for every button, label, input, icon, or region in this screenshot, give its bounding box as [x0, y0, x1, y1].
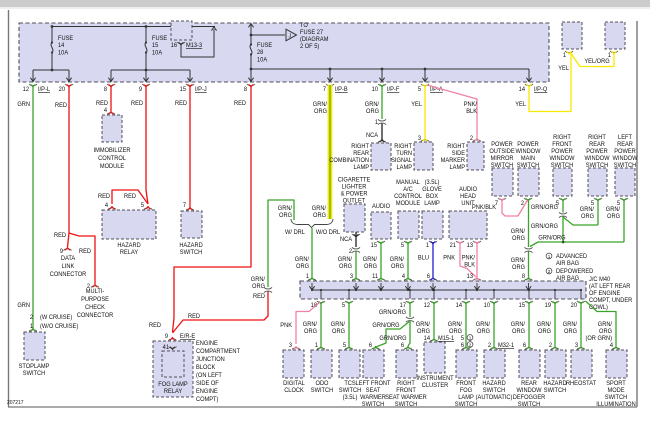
svg-text:MAIN: MAIN — [521, 156, 535, 162]
fog pin 9 — [165, 334, 169, 340]
label YEL pin14 — [515, 102, 526, 108]
left front seat warmer pin 6 — [369, 343, 373, 349]
label YEL/ORG — [584, 59, 610, 65]
digital clock — [283, 350, 304, 378]
to fuse 27 note — [300, 23, 328, 50]
svg-text:ORG: ORG — [339, 264, 352, 270]
svg-text:2 OF 5): 2 OF 5) — [300, 44, 319, 50]
fuse 14 — [51, 26, 53, 70]
rheostat pin bump — [577, 347, 585, 350]
left front seat warmer switch — [363, 350, 384, 378]
svg-text:2: 2 — [349, 249, 352, 255]
bus internal drop pin 10 — [493, 290, 495, 299]
svg-text:10: 10 — [372, 87, 379, 93]
right turn signal lamp bump — [421, 139, 429, 142]
svg-text:GRN/: GRN/ — [476, 322, 491, 328]
wire GRN/ORG bus pin20 to rheostat — [580, 303, 582, 347]
svg-text:RELAY: RELAY — [120, 250, 138, 256]
svg-text:FUSE: FUSE — [257, 43, 272, 49]
connector M13-3 — [171, 21, 192, 40]
label NCA — [366, 133, 378, 139]
legend depowered air bag — [556, 269, 593, 282]
svg-text:GRN/: GRN/ — [363, 257, 378, 263]
bus bottom bump pin 20 — [577, 301, 585, 304]
svg-text:RIGHT: RIGHT — [553, 135, 571, 141]
bus bottom bump pin 17 — [406, 301, 414, 304]
digital clock pin bump — [292, 347, 300, 350]
right front power window switch — [553, 168, 572, 196]
label RED at bend — [149, 323, 161, 329]
label RED branch 2 — [79, 249, 91, 255]
sheet right border — [636, 21, 638, 407]
fuse box exit lower pin 8 — [247, 84, 255, 87]
bus bottom bump pin 19 — [551, 301, 559, 304]
right rear combination lamp — [371, 143, 391, 170]
svg-text:GRN/: GRN/ — [448, 322, 463, 328]
odo switch pin bump — [317, 347, 325, 350]
hazard relay pin 4 — [105, 203, 109, 209]
bus internal drop pin 5 — [348, 290, 350, 299]
svg-text:OF ENGINE: OF ENGINE — [589, 291, 620, 297]
wire PNK/BLK mirror to main switch — [502, 200, 528, 217]
junction fuse 28 bottom — [250, 68, 253, 71]
number pin 8 — [104, 87, 108, 93]
svg-text:SWITCH: SWITCH — [395, 402, 417, 408]
svg-text:WARMER: WARMER — [360, 395, 386, 401]
sheet number 207217 — [7, 400, 24, 406]
svg-text:14: 14 — [519, 87, 526, 93]
svg-text:FRONT: FRONT — [552, 142, 572, 148]
fuse28 drop to pin 8 — [250, 69, 252, 81]
svg-text:FOG LAMP: FOG LAMP — [158, 382, 187, 388]
wire GRN/ORG bus pin20 to sport mode switch — [586, 301, 617, 346]
note (W/O CRUISE) — [40, 324, 78, 330]
sport mode pin 4 — [610, 343, 614, 349]
svg-text:GRN/ORG: GRN/ORG — [538, 235, 566, 241]
bus internal drop pin 17 — [409, 290, 411, 299]
label RED below color change — [253, 294, 265, 300]
connector name E/R-E — [180, 334, 195, 340]
bus junction pin 18 — [320, 289, 322, 291]
svg-text:FUSE: FUSE — [152, 36, 167, 42]
svg-text:E/R-E: E/R-E — [180, 334, 195, 340]
wire PNK bus pin18 to digital clock — [296, 302, 320, 344]
label GRN/ORG w-drl — [278, 206, 293, 219]
connector name M15-1 — [438, 336, 455, 342]
svg-text:GRN/: GRN/ — [313, 102, 328, 108]
bus junction pin 12 — [433, 289, 435, 291]
svg-text:MODULE: MODULE — [100, 164, 124, 170]
tcs switch — [339, 350, 360, 378]
bus internal drop pin 14 — [465, 290, 467, 299]
right rear power window switch — [588, 168, 607, 196]
svg-text:LAMP: LAMP — [354, 165, 370, 171]
svg-text:J/C M40: J/C M40 — [589, 277, 611, 283]
audio head unit pin 13 bump — [473, 241, 481, 244]
bus internal arrow pin 1 — [309, 286, 314, 290]
svg-text:SWITCH: SWITCH — [518, 402, 540, 408]
right turn signal lamp — [414, 142, 433, 170]
svg-text:INSTRUMENT: INSTRUMENT — [416, 376, 454, 382]
wire GRN/ORG rf window upper — [562, 200, 564, 213]
front fog circled 1 — [467, 335, 473, 341]
right turn lamp pin 3 — [418, 136, 422, 142]
svg-text:RIGHT: RIGHT — [447, 144, 465, 150]
multi-purpose check connector name — [77, 289, 114, 319]
svg-text:COWL): COWL) — [589, 305, 608, 311]
svg-text:RED: RED — [234, 101, 246, 107]
svg-text:LINK: LINK — [62, 264, 75, 270]
hazard switch automatic name — [476, 381, 513, 401]
svg-text:GRN/: GRN/ — [338, 257, 353, 263]
wire GRN/ORG bus pin10 to hazard switch automatic — [493, 303, 495, 347]
svg-text:SWITCH: SWITCH — [483, 388, 505, 394]
label PNK/BLK — [464, 102, 478, 115]
in-line connector pin 1 — [375, 120, 379, 126]
bracket drop to pin 12 — [32, 70, 34, 81]
immobilizer pin 4 — [104, 108, 108, 114]
pin 16 label — [171, 43, 178, 49]
bus internal stem pin 11 — [380, 283, 382, 289]
bus internal stem pin 1 — [311, 283, 313, 289]
fuse box exit pin 20 — [65, 84, 73, 87]
svg-text:2: 2 — [469, 342, 472, 347]
wire GRN/ORG cigarette to bus pin 3 — [355, 252, 357, 278]
svg-text:SWITCH: SWITCH — [544, 388, 566, 394]
label PNK — [443, 255, 455, 261]
fuse box exit pin 12 I/P-L — [29, 84, 37, 87]
wire GRN/ORG manual a/c to bus pin 4 — [407, 242, 409, 277]
bus junction pin 5 — [348, 289, 350, 291]
right rear window pin 5 — [591, 201, 595, 207]
svg-text:13: 13 — [467, 274, 474, 280]
bus bottom bump pin 15 — [525, 301, 533, 304]
label GRN/ORG sport — [585, 322, 612, 342]
number pin 7 I/P-B — [323, 87, 326, 93]
bus pin 8 bump — [525, 278, 533, 281]
svg-text:GRN/: GRN/ — [251, 277, 266, 283]
manual a/c pin 5 — [401, 243, 405, 249]
mirror switch pin 7 bump — [498, 198, 506, 201]
glove box pin 1 — [426, 243, 430, 249]
svg-text:12: 12 — [424, 303, 430, 309]
hazard auto pin bump — [490, 347, 498, 350]
wire from M13-3 to rail — [181, 29, 214, 57]
instrument cluster pin bump — [430, 339, 438, 342]
drop to pin 5 — [424, 69, 426, 81]
fog lamp relay name — [158, 382, 187, 395]
engine compartment junction block note — [196, 341, 240, 403]
bus bottom bump pin 12 — [430, 301, 438, 304]
drop to pin 7 — [329, 69, 331, 81]
in-line connector cigarette — [352, 247, 360, 252]
svg-text:GRN/: GRN/ — [365, 102, 380, 108]
label GRN/ORG above color change — [251, 277, 266, 290]
arrow into lower pin 8 — [248, 78, 253, 82]
svg-text:15: 15 — [180, 87, 187, 93]
svg-text:SWITCH: SWITCH — [180, 250, 202, 256]
svg-text:LAMP: LAMP — [458, 395, 474, 401]
wire PNK audio head pin 21 to bus — [460, 242, 476, 277]
svg-text:SWITCH: SWITCH — [23, 371, 45, 377]
front fog lamp switch name — [455, 381, 477, 408]
fuse box exit pin 14 I/P-Q — [525, 84, 533, 87]
mirror switch pin 7 — [495, 201, 498, 207]
arrow into pin 9 — [143, 78, 148, 82]
hazard relay pin 5 bump — [144, 207, 152, 210]
svg-text:RED: RED — [55, 103, 67, 109]
rear window defogger name — [513, 381, 546, 408]
svg-text:CONTROL: CONTROL — [98, 156, 126, 162]
wire RED from pin 9 to hazard relay pin 5 — [146, 86, 148, 205]
svg-text:W/O DRL: W/O DRL — [316, 230, 341, 236]
sheet left border — [8, 10, 10, 407]
glove box lamp bottom bump — [429, 241, 437, 244]
front fog pin 6 — [461, 343, 465, 349]
svg-text:GRN/: GRN/ — [537, 322, 552, 328]
number pin 5 I/P-A — [418, 87, 422, 93]
audio head unit name — [459, 187, 477, 207]
odo switch name — [311, 381, 333, 394]
svg-text:W/ DRL: W/ DRL — [285, 230, 306, 236]
svg-text:POWER: POWER — [491, 142, 513, 148]
svg-text:15: 15 — [152, 43, 159, 49]
takeoff line to fuse 27 — [251, 34, 285, 36]
svg-text:2: 2 — [30, 315, 33, 321]
manual a/c bottom bump — [404, 241, 412, 244]
bus bottom bump pin 18 — [317, 301, 325, 304]
fuse box top rail — [52, 26, 215, 28]
fuse 15 — [145, 26, 147, 70]
svg-text:& POWER: & POWER — [341, 191, 369, 197]
bus internal stem pin 13 — [476, 283, 478, 289]
right front seat warmer switch — [396, 350, 417, 378]
bracket drop to pin 15 — [189, 70, 191, 81]
stoplamp pin 1 wo cruise — [30, 324, 34, 330]
left rear window switch pin bump — [620, 198, 628, 201]
label GRN/ORG pin10 — [365, 102, 380, 115]
connector name I/P-J — [195, 87, 207, 93]
label RED pin9 — [131, 101, 143, 107]
option brace for DRL split — [291, 219, 333, 228]
wire GRN/ORG bus pin12 to instrument cluster — [433, 303, 435, 339]
bus junction pin 14 — [465, 289, 467, 291]
label RED at hazard relay pin 4 — [98, 194, 110, 200]
pin 16 bump of M13-3 — [177, 42, 185, 45]
drop to pin 10 — [381, 69, 383, 81]
svg-text:OUTSIDE: OUTSIDE — [489, 149, 514, 155]
bus junction pin 3 — [355, 289, 357, 291]
stoplamp switch name — [19, 364, 50, 377]
fog lamp relay pin 41 bump — [169, 347, 177, 350]
svg-text:ORG: ORG — [304, 329, 317, 335]
junction to fuse 27 takeoff — [250, 34, 253, 37]
svg-text:GRN/ORG: GRN/ORG — [531, 224, 559, 230]
cigarette connector pin 2 — [349, 249, 352, 255]
wire BLU glove box to bus pin 6 — [432, 242, 434, 277]
svg-text:ORG: ORG — [417, 329, 430, 335]
svg-text:I/P-B: I/P-B — [335, 87, 348, 93]
svg-text:RIGHT: RIGHT — [351, 144, 369, 150]
in-line connector rf window — [559, 212, 567, 217]
svg-text:NCA: NCA — [366, 133, 378, 139]
svg-text:(3.5L): (3.5L) — [425, 180, 440, 186]
svg-text:HAZARD: HAZARD — [543, 381, 566, 387]
rear window defogger switch — [519, 350, 540, 378]
svg-text:1: 1 — [548, 254, 551, 259]
right side marker lamp bump — [473, 139, 481, 142]
drop to pin 14 — [528, 69, 530, 81]
connector name I/P-F — [387, 87, 400, 93]
svg-text:2: 2 — [548, 269, 551, 274]
tcs switch pin bump — [345, 347, 353, 350]
svg-text:17: 17 — [400, 303, 406, 309]
fuse box exit pin 7 I/P-B — [326, 84, 334, 87]
bus pin 3 bump — [352, 278, 360, 281]
svg-text:21: 21 — [450, 243, 457, 249]
audio head unit — [449, 211, 487, 239]
bus bottom bump pin 5 — [345, 301, 353, 304]
wire RED from pin 15 to hazard switch — [189, 86, 191, 209]
top right box2 pin 1 — [608, 53, 612, 59]
svg-text:PNK: PNK — [280, 323, 292, 329]
svg-text:DEFOGGER: DEFOGGER — [513, 395, 546, 401]
svg-text:ORG: ORG — [332, 329, 345, 335]
svg-text:28: 28 — [257, 50, 264, 56]
svg-text:TCS: TCS — [344, 381, 355, 387]
svg-text:CLOCK: CLOCK — [284, 388, 304, 394]
svg-text:REAR: REAR — [521, 381, 537, 387]
cigarette lighter bottom bump — [352, 234, 360, 237]
label PNK/BLK mirror — [472, 205, 496, 211]
bus top pin 13 — [467, 274, 474, 280]
svg-text:DATA: DATA — [61, 256, 75, 262]
note (W CRUISE) — [40, 315, 72, 321]
label RED lower pin8 — [234, 101, 246, 107]
audio pin 15 — [371, 243, 378, 249]
svg-text:FRONT: FRONT — [396, 388, 416, 394]
fuse 28 label — [257, 43, 272, 64]
svg-text:COMPARTMENT: COMPARTMENT — [196, 349, 240, 355]
rheostat — [571, 350, 592, 378]
svg-text:GRN/ORG: GRN/ORG — [379, 336, 407, 342]
svg-text:HAZARD: HAZARD — [482, 381, 505, 387]
bus junction pin 1 — [311, 289, 313, 291]
svg-text:LEFT FRONT: LEFT FRONT — [356, 381, 391, 387]
svg-text:SEAT: SEAT — [366, 388, 381, 394]
svg-text:SWITCH: SWITCH — [311, 388, 333, 394]
hazard auto pin 2 — [488, 343, 491, 349]
hazard relay pin 5 — [141, 203, 145, 209]
label YEL pin5 — [411, 102, 422, 108]
svg-text:IMMOBILIZER: IMMOBILIZER — [94, 148, 132, 154]
wire PNK/BLK audio head pin 13 to bus — [476, 242, 478, 277]
svg-text:ORG: ORG — [477, 329, 490, 335]
top right connector box 2 — [605, 22, 625, 49]
right rear power window switch name — [585, 135, 610, 169]
svg-text:20: 20 — [59, 87, 66, 93]
hazard switch lower — [545, 350, 566, 378]
bus internal arrow pin 8 — [526, 286, 531, 290]
main switch pin 2 bump — [524, 198, 532, 201]
audio name — [372, 204, 390, 210]
svg-text:CLUSTER: CLUSTER — [422, 383, 449, 389]
bus bottom number pin 15 — [519, 303, 526, 309]
right front seat warmer name — [385, 381, 427, 408]
bus bottom bump pin 10 — [490, 301, 498, 304]
svg-text:GRN/: GRN/ — [278, 206, 293, 212]
audio head pin 13 — [467, 243, 474, 249]
bus bottom number pin 10 — [484, 303, 491, 309]
svg-text:ORG: ORG — [512, 265, 525, 271]
svg-text:LAMP: LAMP — [424, 201, 440, 207]
svg-text:ORG: ORG — [391, 264, 404, 270]
instrument cluster — [424, 342, 445, 373]
data link pin 9 — [60, 249, 64, 255]
power outside mirror switch — [492, 168, 513, 196]
audio head unit pin 21 bump — [456, 241, 464, 244]
svg-text:GRN/: GRN/ — [511, 322, 526, 328]
wire YEL from pin 5 — [424, 86, 426, 140]
svg-text:POWER: POWER — [517, 142, 539, 148]
odo switch — [311, 350, 332, 378]
fog lamp relay pin bump — [169, 338, 177, 341]
number pin 14 I/P-Q — [519, 87, 526, 93]
hazard switch pin 7 — [183, 203, 186, 209]
svg-text:HAZARD: HAZARD — [179, 243, 202, 249]
svg-text:SIDE: SIDE — [452, 151, 465, 157]
bus top pin 11 — [372, 274, 379, 280]
bus top pin 3 — [350, 274, 354, 280]
svg-text:(OR GRN): (OR GRN) — [585, 336, 612, 342]
legend advanced air bag — [556, 254, 587, 267]
svg-text:20: 20 — [571, 303, 578, 309]
immobilizer name — [94, 148, 132, 170]
svg-text:I/P-J: I/P-J — [195, 87, 207, 93]
label NCA cigarette — [340, 237, 352, 243]
data link connector pin bump — [64, 248, 72, 251]
legend circled 2 — [546, 268, 552, 274]
svg-text:ORG: ORG — [538, 329, 551, 335]
svg-text:YEL/ORG: YEL/ORG — [584, 59, 610, 65]
svg-text:REAR: REAR — [353, 151, 369, 157]
label GRN/ORG main lower — [511, 258, 526, 271]
svg-text:RED: RED — [188, 314, 200, 320]
svg-text:LIGHTER: LIGHTER — [342, 184, 367, 190]
bus junction pin 11 — [380, 289, 382, 291]
bus bottom number pin 20 — [571, 303, 578, 309]
svg-text:LAMP: LAMP — [450, 165, 466, 171]
hazard switch — [181, 211, 202, 238]
number pin 9 — [139, 87, 143, 93]
svg-text:11: 11 — [372, 274, 379, 280]
audio — [371, 212, 391, 239]
bus internal arrow pin 13 — [474, 286, 479, 290]
main switch pin 2 — [521, 201, 524, 207]
svg-text:RELAY: RELAY — [164, 389, 182, 395]
svg-text:41: 41 — [163, 345, 170, 351]
svg-text:JUNCTION: JUNCTION — [196, 357, 225, 363]
svg-text:GRN/: GRN/ — [563, 322, 578, 328]
svg-text:(AUTOMATIC): (AUTOMATIC) — [476, 395, 513, 401]
number pin 15 I/P-J — [180, 87, 187, 93]
svg-text:ENGINE: ENGINE — [196, 341, 218, 347]
stoplamp switch pin bump — [29, 329, 37, 332]
svg-text:SWITCH: SWITCH — [455, 402, 477, 408]
junction fuse14 bottom — [51, 69, 54, 72]
label GRN/ORG hazard auto — [476, 322, 491, 335]
right front power window switch name — [550, 135, 575, 169]
